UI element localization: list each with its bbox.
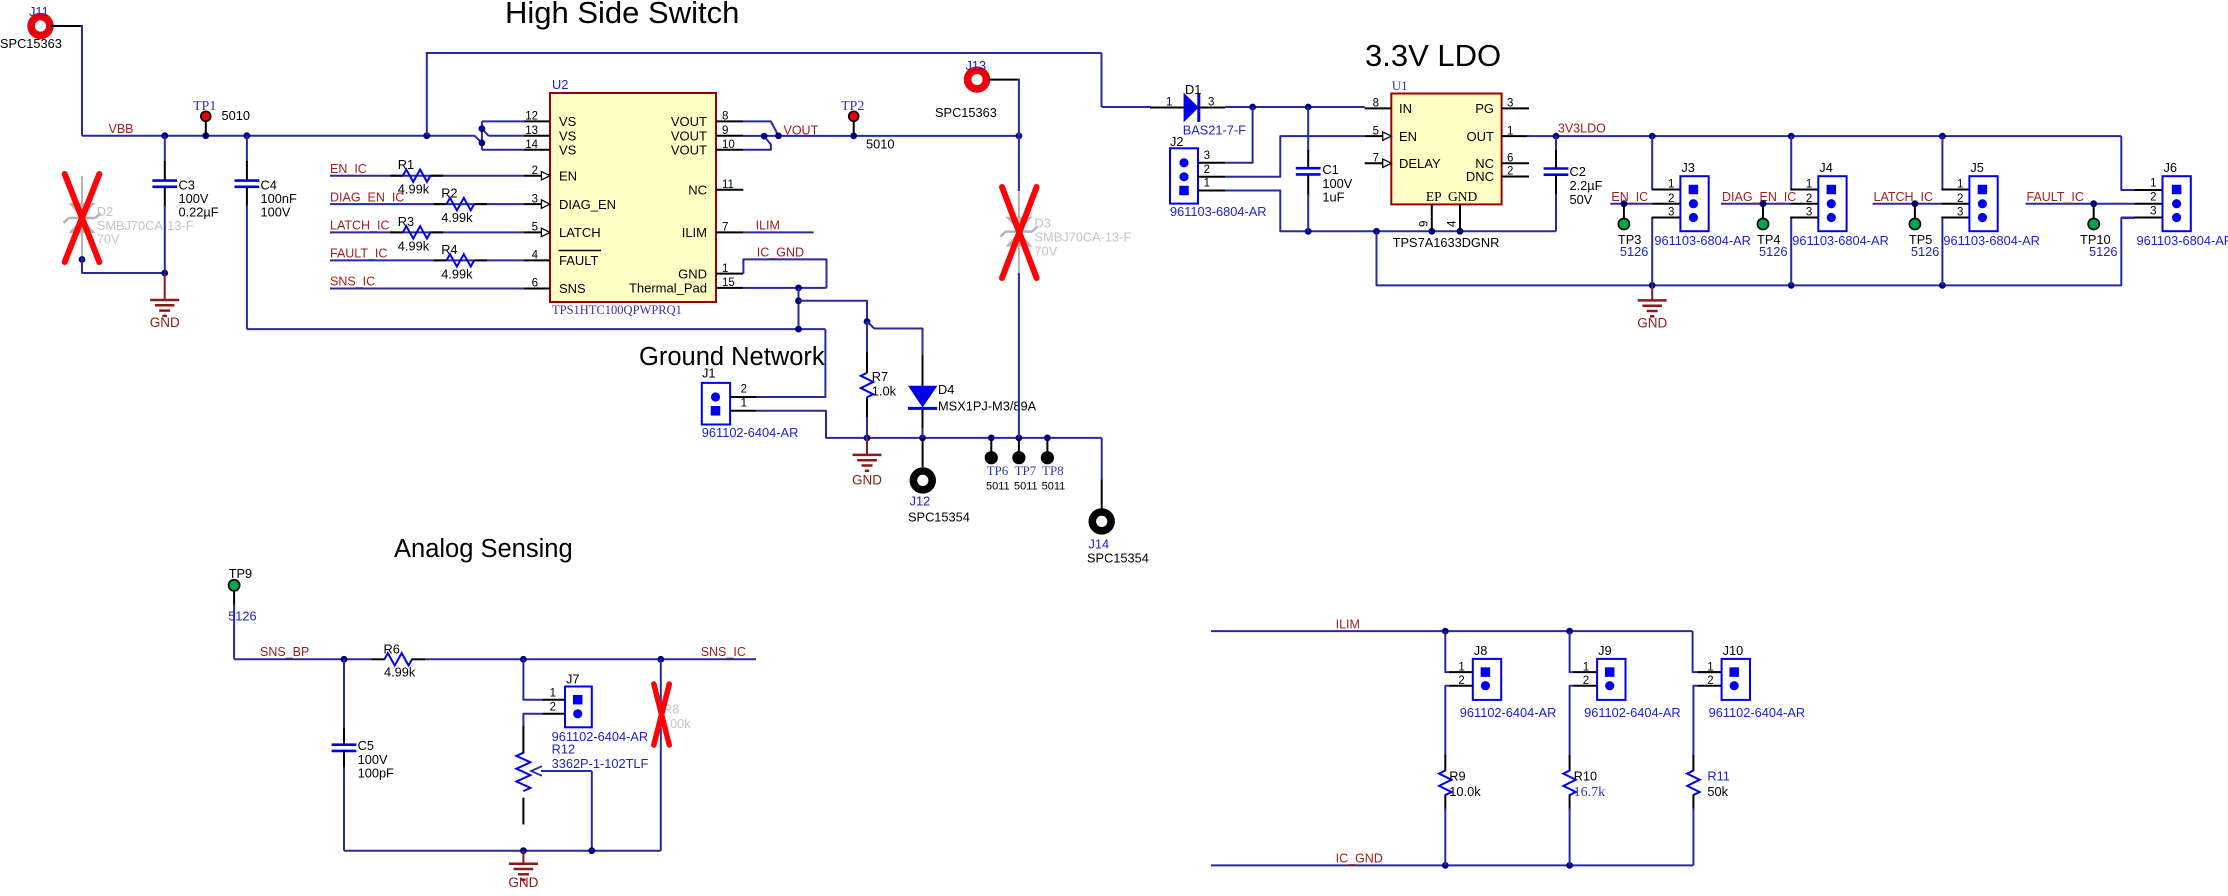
connector J7 (565, 687, 592, 728)
svg-text:ILIM: ILIM (756, 219, 780, 233)
svg-text:2: 2 (1806, 193, 1812, 205)
svg-text:GND: GND (508, 875, 538, 890)
svg-text:BAS21-7-F: BAS21-7-F (1183, 123, 1246, 138)
svg-text:4.99k: 4.99k (441, 210, 473, 225)
U1 pin 7 DELAY (1365, 162, 1392, 164)
svg-text:961103-6804-AR: 961103-6804-AR (1654, 233, 1751, 248)
wire FAULT_IC (2026, 203, 2135, 205)
svg-text:SPC15363: SPC15363 (935, 105, 997, 120)
wire SNS_BP (234, 658, 371, 660)
svg-text:J4: J4 (1819, 160, 1833, 175)
svg-text:VOUT: VOUT (671, 129, 707, 144)
svg-text:4.99k: 4.99k (384, 665, 416, 680)
svg-text:R10: R10 (1574, 769, 1597, 784)
svg-text:1: 1 (2150, 178, 2156, 190)
svg-text:TP6: TP6 (987, 463, 1009, 478)
svg-text:VOUT: VOUT (671, 143, 707, 158)
svg-text:LATCH_IC: LATCH_IC (1874, 190, 1934, 204)
U2 pin 6 SNS (524, 288, 550, 290)
svg-text:J8: J8 (1474, 643, 1488, 658)
svg-text:D3: D3 (1035, 216, 1051, 231)
resistor R11 50k (1692, 755, 1694, 771)
wire 3V3LDO to J4 pin 1 (1789, 136, 1792, 189)
resistor R8 not fitted (660, 659, 662, 850)
junction dots VBB (161, 132, 168, 139)
svg-text:GND: GND (1448, 189, 1477, 204)
svg-text:50k: 50k (1707, 784, 1728, 799)
svg-text:GND: GND (1637, 315, 1667, 330)
U1 pin 9 EP (1431, 204, 1433, 231)
svg-text:C2: C2 (1570, 164, 1586, 179)
svg-text:R11: R11 (1707, 769, 1730, 784)
svg-text:2: 2 (1458, 675, 1464, 687)
svg-text:5: 5 (532, 222, 538, 234)
svg-text:J9: J9 (1598, 643, 1612, 658)
U2 pin 5 LATCH (524, 231, 550, 233)
svg-text:1: 1 (1204, 178, 1210, 190)
svg-text:R9: R9 (1449, 769, 1465, 784)
regulator U1 TPS7A1633DGNR body (1391, 94, 1501, 205)
wire IC_GND to J1 pin 2 (757, 329, 826, 397)
svg-text:3: 3 (532, 193, 538, 205)
svg-text:R1: R1 (398, 157, 414, 172)
svg-text:2: 2 (532, 165, 538, 177)
capacitor C3 (164, 136, 166, 163)
wire SNS_IC to J7 pin 1 (523, 659, 542, 699)
diode D1 BAS21-7-F (1150, 106, 1152, 108)
svg-text:SNS_BP: SNS_BP (260, 645, 309, 659)
svg-text:J1: J1 (702, 366, 716, 381)
wire J5 pin 3 to ground (1941, 218, 1942, 286)
svg-text:8: 8 (722, 111, 728, 123)
svg-text:GND: GND (678, 266, 707, 281)
svg-text:11: 11 (722, 179, 734, 191)
svg-text:961103-6804-AR: 961103-6804-AR (1943, 233, 2040, 248)
U1 pin 8 IN (1365, 107, 1392, 109)
connector J12 (922, 438, 924, 467)
svg-text:1: 1 (1583, 661, 1589, 673)
wire VOUT (743, 121, 778, 135)
svg-text:D4: D4 (938, 382, 954, 397)
svg-text:ILIM: ILIM (682, 225, 707, 240)
svg-text:GND: GND (852, 472, 882, 487)
wire J13 down to ground rail (990, 79, 1019, 81)
U1 pin 3 PG (1502, 107, 1529, 109)
svg-text:961103-6804-AR: 961103-6804-AR (1170, 204, 1267, 219)
svg-text:TP2: TP2 (841, 99, 864, 114)
wire ILIM to J8 (1445, 631, 1449, 672)
svg-text:5126: 5126 (1759, 244, 1787, 259)
diode D3 not fitted (1018, 190, 1020, 273)
svg-text:MSX1PJ-M3/89A: MSX1PJ-M3/89A (938, 399, 1037, 414)
svg-text:1: 1 (1458, 661, 1464, 673)
svg-text:2: 2 (741, 384, 747, 396)
U1 pin 1 OUT (1502, 135, 1529, 137)
ground GND analog (522, 851, 524, 864)
svg-text:U1: U1 (1392, 78, 1408, 93)
capacitor C4 (246, 136, 248, 163)
svg-text:3: 3 (1957, 207, 1963, 219)
svg-text:VS: VS (559, 143, 577, 158)
U2 pin 13 VS (524, 135, 550, 137)
svg-text:Ground Network: Ground Network (639, 343, 825, 371)
svg-text:EN_IC: EN_IC (1611, 190, 1648, 204)
wire J4 pin 3 to ground (1789, 218, 1792, 286)
svg-text:2: 2 (2150, 192, 2156, 204)
testpoint TP5 (1912, 200, 1919, 207)
wire LDO ground rail (1377, 218, 2135, 285)
testpoint TP1 (205, 121, 207, 136)
svg-text:D2: D2 (97, 204, 113, 219)
svg-text:C5: C5 (358, 738, 374, 753)
svg-text:LATCH: LATCH (559, 225, 601, 240)
svg-text:5011: 5011 (1042, 481, 1066, 493)
wire J6 pin 1 stub (2135, 189, 2163, 191)
svg-text:5011: 5011 (986, 481, 1010, 493)
ground GND at R7 (866, 438, 868, 455)
connector J14 (1092, 512, 1111, 531)
svg-text:IN: IN (1399, 101, 1412, 116)
wire ground rail to J14 (1101, 438, 1103, 479)
wire ILIM to J9 (1570, 631, 1574, 672)
svg-text:SMBJ70CA-13-F: SMBJ70CA-13-F (1035, 230, 1132, 245)
wire VBB (82, 135, 475, 137)
svg-text:961102-6404-AR: 961102-6404-AR (702, 425, 799, 440)
svg-text:3: 3 (1507, 98, 1513, 110)
svg-text:5: 5 (1373, 125, 1379, 137)
svg-text:961102-6404-AR: 961102-6404-AR (1584, 705, 1681, 720)
svg-text:7: 7 (722, 222, 728, 234)
wire J8 pin 2 to R9 (1445, 686, 1449, 757)
svg-text:VBB: VBB (109, 122, 134, 136)
svg-text:3.3V LDO: 3.3V LDO (1365, 38, 1501, 73)
svg-text:TPS1HTC100QPWPRQ1: TPS1HTC100QPWPRQ1 (552, 303, 682, 317)
svg-text:961103-6804-AR: 961103-6804-AR (2137, 233, 2228, 248)
capacitor C2 2.2uF (1555, 136, 1557, 152)
wire SNS_IC (330, 288, 524, 290)
svg-text:OUT: OUT (1467, 129, 1495, 144)
connector J1 (702, 383, 730, 425)
wire ILIM rail (1211, 630, 1693, 632)
svg-text:J13: J13 (966, 58, 987, 73)
testpoint TP6 (990, 438, 992, 452)
svg-text:J6: J6 (2164, 160, 2178, 175)
testpoint TP10 (2090, 200, 2097, 207)
diode D2 not fitted (81, 176, 83, 259)
svg-text:1.0k: 1.0k (872, 384, 897, 399)
resistor R7 1.0k (866, 322, 868, 355)
connector J9 961102-6404-AR (1597, 659, 1625, 700)
svg-text:TP7: TP7 (1015, 463, 1037, 478)
svg-text:LATCH_IC: LATCH_IC (330, 219, 390, 233)
wire J7 pin 2 to R12 (523, 714, 542, 727)
svg-text:4: 4 (532, 250, 539, 262)
wire EN_IC (1610, 203, 1652, 205)
svg-text:12: 12 (525, 111, 538, 123)
svg-text:961102-6404-AR: 961102-6404-AR (1709, 705, 1806, 720)
svg-text:NC: NC (688, 183, 707, 198)
svg-text:1uF: 1uF (1322, 190, 1344, 205)
resistor R3 4.99k (390, 231, 403, 233)
svg-text:DNC: DNC (1466, 169, 1494, 184)
wire SNS_IC analog (425, 658, 756, 660)
svg-text:2: 2 (1707, 675, 1713, 687)
wire 3V3LDO to J5 pin 1 (1941, 136, 1942, 189)
svg-text:J2: J2 (1170, 134, 1184, 149)
svg-text:IC_GND: IC_GND (1336, 852, 1383, 866)
svg-text:R7: R7 (872, 369, 888, 384)
connector J4 961103-6804-AR (1818, 176, 1846, 231)
U1 pin 4 GND (1459, 204, 1461, 231)
svg-text:SNS: SNS (559, 281, 586, 296)
ground GND at C3 (164, 274, 166, 300)
ground GND at LDO (1651, 285, 1653, 300)
wire VBB to top rail (426, 53, 428, 136)
svg-text:ILIM: ILIM (1336, 617, 1360, 631)
svg-text:15: 15 (722, 277, 735, 289)
svg-text:VOUT: VOUT (671, 114, 707, 129)
resistor R9 10.0k (1444, 755, 1446, 771)
svg-text:FAULT_IC: FAULT_IC (2027, 190, 2084, 204)
svg-text:SNS_IC: SNS_IC (701, 645, 746, 659)
svg-text:R4: R4 (441, 242, 457, 257)
svg-text:6: 6 (532, 278, 538, 290)
svg-text:5011: 5011 (1014, 481, 1038, 493)
capacitor C1 1uF (1307, 107, 1309, 152)
svg-text:4: 4 (1447, 220, 1459, 227)
U2 pin 14 VS (524, 149, 550, 151)
svg-text:4.99k: 4.99k (398, 238, 430, 253)
svg-text:VS: VS (559, 114, 577, 129)
svg-text:FAULT: FAULT (559, 253, 599, 268)
wire analog ground rail (344, 850, 661, 852)
svg-text:SPC15363: SPC15363 (0, 36, 62, 51)
svg-text:SPC15354: SPC15354 (1087, 551, 1149, 566)
svg-text:50V: 50V (1570, 192, 1593, 207)
svg-text:DIAG_EN_IC: DIAG_EN_IC (1722, 190, 1796, 204)
wire J11 to VBB (50, 25, 82, 27)
svg-text:5126: 5126 (2089, 244, 2117, 259)
svg-text:1: 1 (1668, 179, 1674, 191)
svg-text:13: 13 (525, 125, 538, 137)
svg-text:1: 1 (1806, 179, 1812, 191)
svg-text:10: 10 (722, 139, 735, 151)
svg-text:70V: 70V (1035, 244, 1058, 259)
svg-text:2: 2 (1957, 193, 1963, 205)
svg-text:Analog Sensing: Analog Sensing (394, 535, 573, 563)
svg-text:J10: J10 (1723, 643, 1744, 658)
svg-text:FAULT_IC: FAULT_IC (330, 247, 387, 261)
wire DIAG_EN_IC (330, 203, 524, 205)
wire J9 pin 2 to R10 (1570, 686, 1574, 757)
svg-text:TP1: TP1 (193, 99, 216, 114)
svg-text:EN_IC: EN_IC (330, 162, 367, 176)
svg-text:TPS7A1633DGNR: TPS7A1633DGNR (1393, 235, 1500, 250)
connector J10 961102-6404-AR (1722, 659, 1750, 700)
wire IC_GND U2 (743, 259, 826, 288)
diode D4 MSX1PJ-M3/89A (922, 355, 924, 387)
svg-text:1: 1 (1957, 179, 1963, 191)
connector J6 961103-6804-AR (2163, 176, 2191, 231)
svg-text:70V: 70V (97, 232, 120, 247)
U2 pin 12 VS (524, 120, 550, 122)
potentiometer R12 3362P-1-102TLF (522, 726, 524, 754)
testpoint TP8 (1046, 438, 1048, 452)
svg-text:VS: VS (559, 129, 577, 144)
wire FAULT_IC (330, 259, 524, 261)
svg-text:8: 8 (1373, 98, 1379, 110)
red X over D2 (65, 174, 100, 262)
svg-text:J5: J5 (1970, 160, 1984, 175)
op-amp U2 TPS1HTC100QPWPRQ1 body (550, 93, 716, 302)
svg-text:5010: 5010 (222, 108, 250, 123)
svg-text:IC_GND: IC_GND (757, 245, 804, 259)
testpoint TP3 (1621, 200, 1628, 207)
svg-text:EN: EN (559, 168, 577, 183)
svg-text:R2: R2 (441, 186, 457, 201)
svg-text:3362P-1-102TLF: 3362P-1-102TLF (552, 756, 649, 771)
svg-text:2: 2 (1668, 193, 1674, 205)
resistor R2 4.99k (434, 203, 447, 205)
wire J2 pin 3 to IN net (1225, 107, 1253, 163)
red X over D3 (1002, 187, 1037, 278)
svg-text:U2: U2 (552, 77, 568, 92)
wire D1 to U1 IN (1225, 106, 1365, 108)
U2 pin 7 ILIM (716, 231, 743, 233)
svg-text:SPC15354: SPC15354 (908, 510, 970, 525)
svg-text:J11: J11 (29, 4, 49, 19)
svg-text:7: 7 (1373, 152, 1379, 164)
U2 pin 8 VOUT (716, 120, 743, 122)
svg-text:3: 3 (1806, 207, 1812, 219)
svg-text:16.7k: 16.7k (1574, 785, 1606, 800)
svg-text:1: 1 (741, 397, 747, 409)
svg-text:EP: EP (1426, 189, 1442, 204)
wire J2 pin 2 to U1 EN (1225, 136, 1365, 177)
svg-text:J7: J7 (566, 672, 580, 687)
wire J1 pin 1 to ground rail (757, 411, 1102, 438)
wire J6 pin 3 to ground (2121, 217, 2134, 219)
svg-text:2: 2 (550, 701, 556, 713)
svg-text:1: 1 (550, 687, 556, 699)
svg-text:1: 1 (722, 263, 728, 275)
U2 pin 3 DIAG_EN (524, 203, 550, 205)
svg-text:2.2µF: 2.2µF (1570, 178, 1603, 193)
svg-text:PG: PG (1475, 101, 1494, 116)
svg-text:10.0k: 10.0k (1449, 784, 1481, 799)
svg-text:961103-6804-AR: 961103-6804-AR (1792, 233, 1889, 248)
wire D2 bottom to GND (79, 256, 86, 263)
testpoint TP4 (1760, 200, 1767, 207)
svg-text:R6: R6 (384, 642, 400, 657)
svg-text:J3: J3 (1681, 160, 1695, 175)
U1 pin 6 NC (1502, 162, 1529, 164)
connector J13 (968, 70, 987, 89)
U2 pin 9 VOUT (716, 135, 743, 137)
U2 pin 1 GND (716, 273, 743, 275)
svg-text:1: 1 (1507, 125, 1513, 137)
testpoint TP7 (1018, 438, 1020, 452)
U2 pin 15 Thermal_Pad (716, 287, 743, 289)
svg-text:1: 1 (1707, 661, 1713, 673)
U1 pin 5 EN (1365, 135, 1392, 137)
connector J5 961103-6804-AR (1969, 176, 1997, 231)
svg-text:6: 6 (1507, 152, 1513, 164)
svg-text:100pF: 100pF (358, 766, 394, 781)
wire C4 to IC_GND net (246, 205, 248, 329)
U2 pin 2 EN (524, 175, 550, 177)
svg-text:0.22µF: 0.22µF (179, 205, 219, 220)
svg-text:TP8: TP8 (1042, 463, 1064, 478)
svg-text:5010: 5010 (866, 137, 894, 152)
U2 pin 10 VOUT (716, 149, 743, 151)
svg-text:1: 1 (1166, 97, 1172, 109)
svg-text:SNS_IC: SNS_IC (330, 275, 375, 289)
svg-text:3: 3 (2150, 206, 2156, 218)
resistor R10 16.7k (1569, 755, 1571, 771)
resistor R6 4.99k (372, 658, 385, 660)
svg-text:2: 2 (1583, 675, 1589, 687)
wire DIAG_EN_IC (1721, 203, 1790, 205)
U1 pin 2 DNC (1502, 176, 1529, 178)
svg-text:5126: 5126 (1620, 244, 1648, 259)
U2 pin 11 NC (716, 189, 743, 191)
svg-text:GND: GND (150, 315, 180, 330)
wire IC_GND rail (1211, 864, 1693, 866)
svg-text:High Side Switch: High Side Switch (505, 0, 739, 30)
testpoint TP2 (853, 121, 855, 136)
wire J10 pin 2 to R11 (1693, 686, 1697, 757)
svg-text:VOUT: VOUT (784, 123, 819, 137)
connector J2 (1170, 148, 1198, 203)
svg-text:14: 14 (525, 139, 538, 151)
svg-text:3: 3 (1208, 97, 1214, 109)
svg-text:3: 3 (1668, 207, 1674, 219)
resistor R4 4.99k (434, 259, 447, 261)
wire EN_IC (330, 175, 524, 177)
svg-text:J12: J12 (910, 494, 931, 509)
svg-text:R12: R12 (552, 742, 575, 757)
capacitor C5 100pF (343, 659, 345, 730)
connector J3 961103-6804-AR (1680, 176, 1708, 231)
wire J3 pin 3 to ground (1651, 218, 1653, 286)
svg-text:3: 3 (1204, 150, 1210, 162)
svg-text:J14: J14 (1089, 537, 1110, 552)
svg-text:DIAG_EN_IC: DIAG_EN_IC (330, 190, 404, 204)
wire 3V3LDO to J3 pin 1 (1651, 136, 1653, 189)
svg-text:9: 9 (722, 125, 728, 137)
wire LATCH_IC (330, 231, 524, 233)
svg-text:D1: D1 (1185, 82, 1201, 97)
connector J11 (31, 17, 50, 36)
svg-text:4.99k: 4.99k (441, 266, 473, 281)
svg-text:R3: R3 (398, 214, 414, 229)
wire J2 pin 1 to GND rail (1225, 191, 1556, 232)
svg-text:5126: 5126 (228, 609, 256, 624)
svg-text:TP9: TP9 (229, 566, 252, 581)
resistor R1 4.99k (390, 175, 403, 177)
svg-text:EN: EN (1399, 129, 1417, 144)
wire LATCH_IC (1873, 203, 1942, 205)
svg-text:3V3LDO: 3V3LDO (1558, 122, 1606, 136)
svg-text:961102-6404-AR: 961102-6404-AR (1460, 705, 1557, 720)
svg-text:2: 2 (1204, 164, 1210, 176)
svg-text:Thermal_Pad: Thermal_Pad (629, 281, 707, 296)
svg-text:DIAG_EN: DIAG_EN (559, 197, 616, 212)
U2 pin 4 FAULT (524, 259, 550, 261)
svg-text:5126: 5126 (1911, 244, 1939, 259)
svg-text:9: 9 (1419, 221, 1431, 227)
